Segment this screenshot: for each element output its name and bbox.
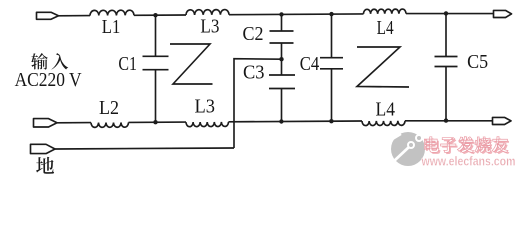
wire: top rail left segment — [58, 15, 90, 17]
svg-text:C2: C2 — [243, 24, 264, 45]
node: junction dot bottom of C3 — [279, 119, 283, 123]
inductor L4 (top) — [364, 9, 406, 14]
inductor L3 (bottom) — [186, 122, 228, 127]
svg-text:www.elecfans.com: www.elecfans.com — [421, 154, 516, 169]
svg-text:AC220 V: AC220 V — [15, 69, 82, 91]
svg-text:C3: C3 — [243, 63, 265, 84]
wire: top rail L3 to L4 — [229, 13, 364, 16]
svg-text:C5: C5 — [467, 52, 488, 73]
wire: earth link from C2/C3 midpoint to riser — [234, 59, 282, 148]
terminal: top-right output plug — [494, 10, 512, 17]
inductor L2 — [91, 122, 129, 127]
capacitor C3 — [269, 59, 295, 121]
wire: bottom rail left segment — [57, 122, 91, 124]
svg-text:L3: L3 — [200, 16, 219, 37]
inductor L4 (bottom) — [362, 121, 405, 126]
node: junction dot bottom of C1 — [153, 120, 157, 124]
capacitor C5 — [435, 13, 458, 120]
wire: top rail L4 to right terminal — [406, 13, 493, 15]
label: earth text 地 — [36, 157, 54, 174]
node: junction dot top of C1 — [153, 13, 157, 17]
inductor L3 (top) — [186, 10, 229, 15]
label: input text 输入 — [31, 53, 48, 69]
terminal: top-left input plug — [37, 12, 59, 19]
node: junction dot top of C4 — [329, 12, 333, 16]
terminal: bottom-right output plug — [493, 117, 512, 124]
watermark: elecfans logo disc — [391, 132, 425, 166]
svg-text:L4: L4 — [376, 100, 396, 121]
wire: bottom rail L2 to L3 — [129, 121, 187, 123]
capacitor C2 — [270, 14, 294, 59]
common-mode choke Z2 (right Z symbol) — [357, 47, 409, 87]
inductor L1 — [90, 10, 134, 15]
node: junction dot top of C5 — [444, 11, 448, 15]
node: junction dot top of C2 — [279, 12, 283, 16]
capacitor C1 — [143, 15, 169, 122]
wire: ground run to earth terminal — [55, 148, 234, 149]
wire: bottom rail L4 to right terminal — [405, 120, 492, 122]
node: earth junction between C2 and C3 — [279, 57, 283, 61]
terminal: bottom-left input plug — [34, 119, 58, 127]
node: junction dot bottom of C5 — [444, 118, 448, 122]
wire: bottom rail L3 to L4 (crosses earth riser) — [229, 120, 363, 123]
watermark text 电子发烧友 — [426, 138, 440, 153]
node: junction dot bottom of C4 — [329, 119, 333, 123]
svg-text:L3: L3 — [195, 97, 216, 118]
capacitor C4 — [320, 14, 343, 121]
svg-text:C1: C1 — [118, 54, 137, 75]
svg-text:C4: C4 — [300, 54, 320, 75]
terminal: earth plug — [31, 144, 56, 153]
svg-text:L1: L1 — [102, 17, 121, 38]
wire: top rail L1 to L3 — [134, 14, 186, 16]
common-mode choke Z1 (left Z symbol) — [170, 44, 213, 84]
svg-text:L4: L4 — [377, 18, 394, 39]
svg-text:L2: L2 — [99, 98, 119, 119]
